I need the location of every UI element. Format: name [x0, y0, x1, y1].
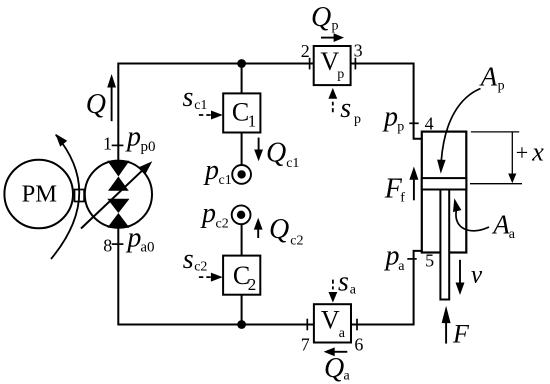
- svg-text:p: p: [200, 198, 216, 229]
- svg-text:6: 6: [354, 334, 363, 354]
- svg-text:c1: c1: [194, 98, 207, 113]
- svg-text:s: s: [340, 93, 351, 124]
- svg-text:4: 4: [425, 114, 434, 134]
- svg-text:p: p: [498, 79, 505, 94]
- s_p dashed arrow (up into Vp): [332, 102, 334, 113]
- svg-text:2: 2: [301, 41, 310, 61]
- prime mover PM circle: [4, 160, 73, 229]
- pump triangle bottom-upper: [107, 199, 129, 213]
- wire bottom loop: pump port8 down, across bottom, up right side to cylinder port5: [118, 228, 422, 325]
- svg-text:Q: Q: [269, 214, 289, 245]
- svg-text:a: a: [350, 282, 357, 297]
- svg-text:a: a: [509, 227, 516, 242]
- port 5 tick: [407, 258, 416, 260]
- pump triangle top-upper: [107, 161, 129, 177]
- svg-text:p: p: [125, 122, 141, 153]
- svg-text:p: p: [382, 102, 398, 133]
- wire branch C1 from top junction down to node pc1: [241, 64, 243, 167]
- wire branch C2 from node pc2 down to bottom junction: [241, 225, 243, 325]
- svg-text:p: p: [203, 155, 219, 186]
- cylinder barrel: [422, 132, 467, 253]
- svg-text:+: +: [516, 140, 528, 165]
- control block C2: [223, 256, 260, 295]
- svg-text:PM: PM: [22, 181, 58, 208]
- svg-text:8: 8: [103, 236, 112, 256]
- s_a dashed arrow (down into Va): [332, 280, 334, 290]
- port 6 tick: [356, 319, 358, 331]
- svg-text:x: x: [531, 138, 544, 167]
- svg-text:3: 3: [354, 40, 363, 60]
- +x dimension top line: [471, 131, 519, 133]
- svg-text:p: p: [337, 67, 344, 82]
- svg-text:Q: Q: [266, 138, 286, 169]
- svg-text:F: F: [452, 319, 470, 348]
- Q_a arrow (left): [333, 351, 347, 353]
- svg-text:s: s: [183, 244, 194, 275]
- A_p curved arrow: [441, 89, 480, 161]
- svg-text:a: a: [344, 368, 351, 383]
- port 3 tick: [354, 58, 356, 70]
- pump triangle bottom-lower: [107, 213, 129, 228]
- A_a curved arrow: [456, 211, 489, 231]
- svg-text:1: 1: [103, 134, 112, 154]
- svg-text:V: V: [321, 306, 340, 335]
- svg-text:C: C: [232, 97, 249, 126]
- Q_c1 arrow (down): [258, 138, 260, 150]
- shaft coupling: [75, 190, 85, 202]
- svg-text:p: p: [332, 19, 339, 34]
- svg-text:c1: c1: [219, 173, 232, 188]
- svg-text:2: 2: [248, 275, 256, 294]
- svg-text:a: a: [398, 259, 405, 274]
- svg-text:c2: c2: [290, 233, 303, 248]
- svg-text:f: f: [400, 191, 405, 206]
- svg-text:p: p: [354, 112, 361, 127]
- svg-text:Q: Q: [86, 89, 106, 120]
- svg-text:a: a: [339, 326, 346, 341]
- svg-text:5: 5: [425, 251, 434, 271]
- svg-text:a0: a0: [140, 240, 154, 256]
- svg-text:c2: c2: [216, 217, 229, 232]
- rotation curved arrow: [51, 135, 79, 259]
- svg-text:c1: c1: [286, 156, 299, 171]
- svg-text:1: 1: [248, 111, 256, 130]
- s_c2 dashed arrow: [199, 276, 212, 278]
- F_f arrow (up): [413, 179, 415, 200]
- valve Vp box: [314, 46, 351, 85]
- svg-text:A: A: [491, 210, 510, 240]
- Q_c2 arrow (up): [257, 230, 259, 239]
- +x dimension bottom line: [470, 183, 522, 185]
- svg-text:Q: Q: [311, 2, 331, 33]
- pump triangle top-lower: [108, 177, 129, 191]
- junction dot top: [237, 59, 246, 68]
- port 1 tick: [112, 144, 124, 146]
- control block C1: [223, 93, 260, 132]
- svg-text:v: v: [471, 261, 483, 288]
- piston: [422, 178, 467, 189]
- Q_p arrow (right): [321, 37, 335, 39]
- svg-text:p: p: [384, 241, 400, 272]
- port 7 tick: [306, 319, 308, 331]
- port 8 tick: [112, 243, 124, 245]
- F arrow (up): [445, 323, 447, 344]
- svg-text:Q: Q: [324, 353, 344, 384]
- +x dimension arrow: [511, 132, 513, 175]
- valve Va box: [314, 304, 351, 342]
- s_c1 dashed arrow: [199, 114, 212, 116]
- piston rod: [440, 190, 449, 300]
- node p_c1 circled dot: [232, 165, 251, 184]
- Q arrow (up): [111, 87, 113, 121]
- pump/motor unit circle: [85, 161, 152, 228]
- port 2 tick: [309, 58, 311, 70]
- svg-text:7: 7: [301, 334, 310, 354]
- svg-text:A: A: [479, 62, 498, 92]
- junction dot bottom: [237, 320, 246, 329]
- svg-text:p: p: [397, 119, 404, 134]
- svg-text:c2: c2: [194, 260, 207, 275]
- svg-text:s: s: [338, 266, 349, 297]
- variable displacement arrow: [81, 170, 143, 229]
- v arrow (down): [459, 260, 461, 283]
- wire top loop: pump port1 up, across top, down right side to cylinder port4: [118, 64, 422, 162]
- svg-text:s: s: [183, 82, 194, 113]
- port 4 tick: [409, 122, 418, 124]
- node p_c2 circled dot: [232, 205, 251, 224]
- svg-text:p0: p0: [141, 139, 156, 155]
